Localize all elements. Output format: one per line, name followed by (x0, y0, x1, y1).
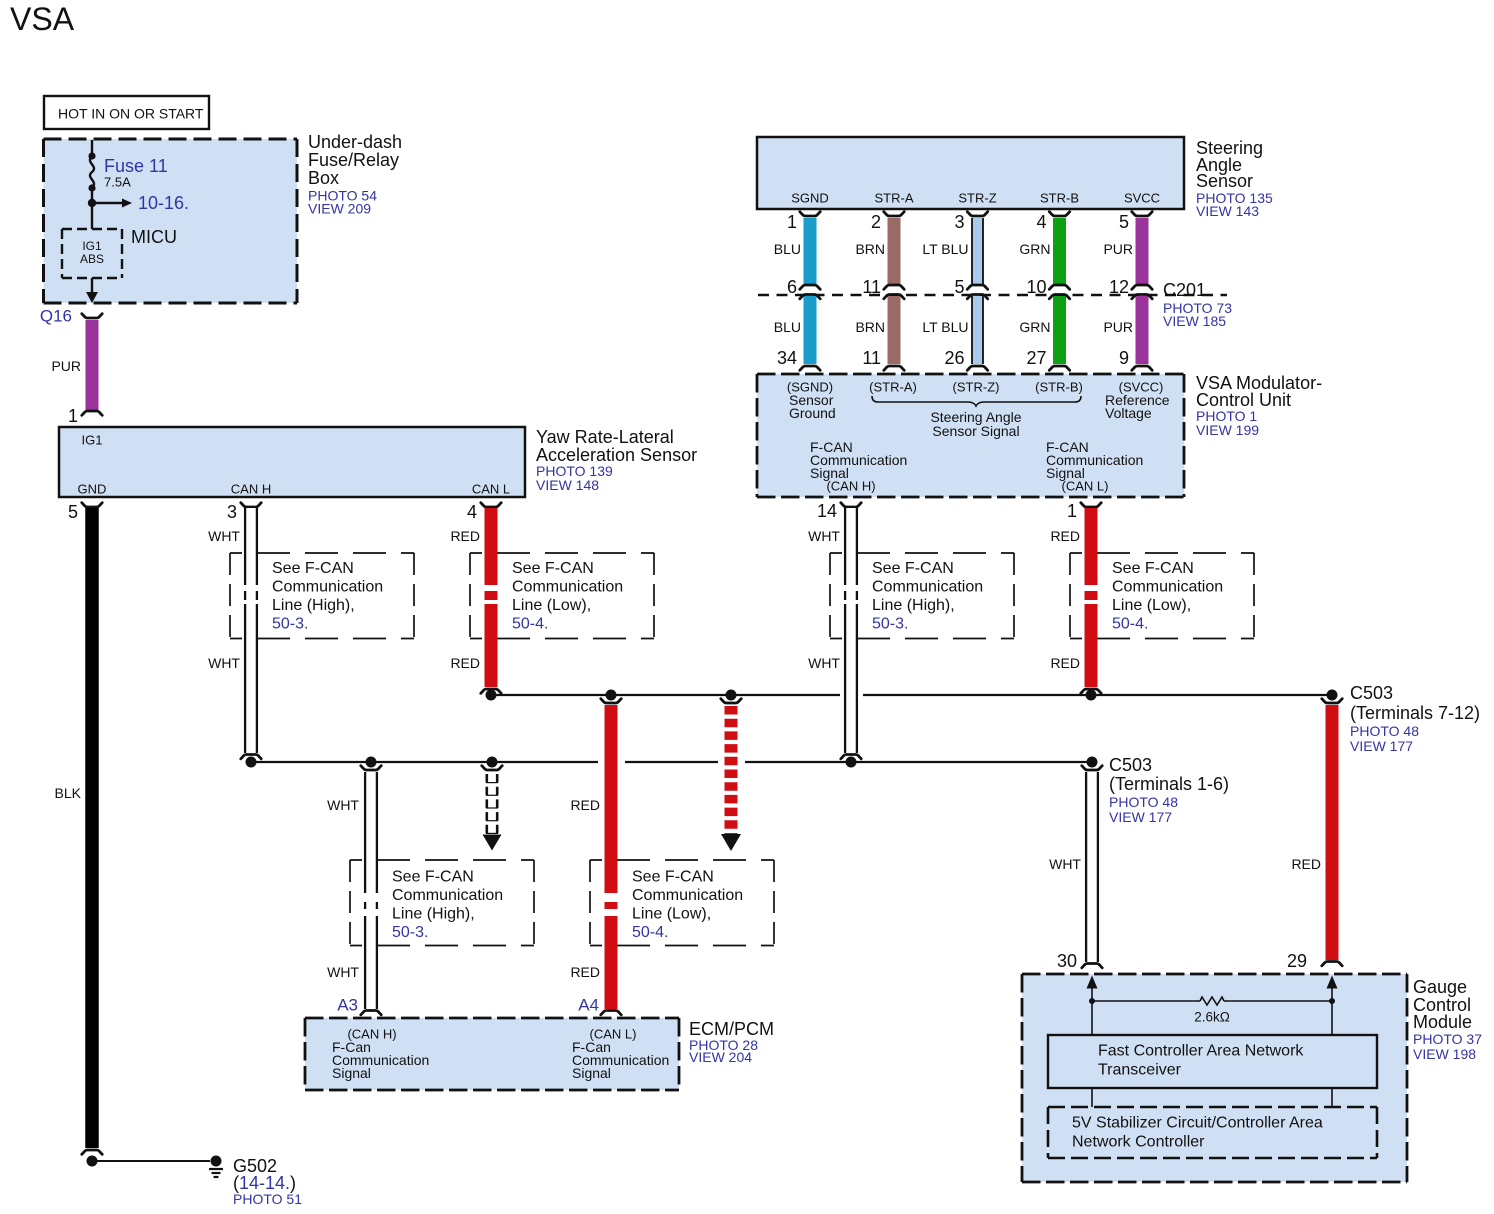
svg-text:VIEW 143: VIEW 143 (1196, 203, 1259, 219)
svg-text:CAN H: CAN H (231, 482, 271, 497)
svg-text:Communication: Communication (392, 887, 503, 904)
svg-text:VIEW 209: VIEW 209 (308, 201, 371, 217)
svg-text:11: 11 (862, 348, 881, 368)
svg-text:VSA: VSA (10, 1, 75, 37)
svg-text:WHT: WHT (808, 655, 840, 671)
svg-text:LT BLU: LT BLU (922, 241, 968, 257)
svg-text:Signal: Signal (572, 1065, 611, 1081)
svg-text:See F-CAN: See F-CAN (392, 869, 474, 886)
svg-text:See F-CAN: See F-CAN (872, 560, 954, 577)
svg-text:PUR: PUR (51, 358, 81, 374)
svg-text:VIEW 199: VIEW 199 (1196, 422, 1259, 438)
svg-text:Line (High),: Line (High), (872, 597, 955, 614)
svg-text:WHT: WHT (327, 964, 359, 980)
svg-text:BLK: BLK (55, 785, 82, 801)
svg-text:See F-CAN: See F-CAN (1112, 560, 1194, 577)
svg-text:PHOTO 48: PHOTO 48 (1109, 794, 1178, 810)
svg-text:BLU: BLU (774, 319, 801, 335)
svg-text:IG1: IG1 (82, 433, 103, 448)
svg-text:10: 10 (1026, 277, 1046, 297)
svg-text:2.6kΩ: 2.6kΩ (1194, 1010, 1230, 1025)
svg-text:RED: RED (1050, 528, 1080, 544)
svg-text:VIEW 177: VIEW 177 (1350, 738, 1413, 754)
svg-text:ECM/PCM: ECM/PCM (689, 1019, 774, 1039)
svg-text:C201: C201 (1163, 280, 1206, 300)
svg-text:2: 2 (871, 212, 881, 232)
svg-text:RED: RED (570, 964, 600, 980)
svg-text:WHT: WHT (808, 528, 840, 544)
svg-text:4: 4 (1036, 212, 1046, 232)
svg-text:PUR: PUR (1103, 319, 1133, 335)
svg-text:See F-CAN: See F-CAN (272, 560, 354, 577)
svg-text:PHOTO 51: PHOTO 51 (233, 1191, 302, 1207)
svg-text:Under-dash: Under-dash (308, 132, 402, 152)
svg-text:(CAN H): (CAN H) (826, 479, 875, 494)
svg-text:RED: RED (450, 655, 480, 671)
svg-text:A3: A3 (337, 996, 358, 1015)
svg-text:Transceiver: Transceiver (1098, 1062, 1182, 1079)
svg-text:VIEW 185: VIEW 185 (1163, 313, 1226, 329)
svg-text:Line (Low),: Line (Low), (512, 597, 591, 614)
svg-text:50-3.: 50-3. (872, 616, 908, 633)
svg-text:Ground: Ground (789, 405, 836, 421)
svg-text:Communication: Communication (1112, 579, 1223, 596)
svg-text:3: 3 (954, 212, 964, 232)
svg-text:Communication: Communication (632, 887, 743, 904)
svg-text:5V Stabilizer Circuit/Controll: 5V Stabilizer Circuit/Controller Area (1072, 1115, 1323, 1132)
svg-text:VIEW 198: VIEW 198 (1413, 1046, 1476, 1062)
svg-text:GND: GND (78, 482, 107, 497)
svg-text:ABS: ABS (80, 252, 104, 266)
svg-text:A4: A4 (578, 996, 599, 1015)
svg-text:4: 4 (467, 502, 477, 522)
svg-text:VIEW 177: VIEW 177 (1109, 809, 1172, 825)
svg-text:STR-B: STR-B (1040, 191, 1079, 206)
svg-text:26: 26 (944, 348, 964, 368)
svg-text:Fuse/Relay: Fuse/Relay (308, 150, 399, 170)
svg-text:GRN: GRN (1019, 319, 1050, 335)
svg-text:SGND: SGND (791, 191, 829, 206)
svg-text:(Terminals 1-6): (Terminals 1-6) (1109, 774, 1229, 794)
svg-text:Line (Low),: Line (Low), (1112, 597, 1191, 614)
svg-text:WHT: WHT (208, 655, 240, 671)
svg-text:IG1: IG1 (82, 239, 102, 253)
svg-text:50-4.: 50-4. (632, 924, 668, 941)
svg-text:Signal: Signal (332, 1065, 371, 1081)
svg-text:(CAN L): (CAN L) (1062, 479, 1109, 494)
svg-text:STR-Z: STR-Z (958, 191, 996, 206)
svg-text:SVCC: SVCC (1124, 191, 1160, 206)
svg-text:HOT IN ON OR START: HOT IN ON OR START (58, 106, 204, 122)
svg-text:Sensor: Sensor (1196, 171, 1253, 191)
svg-text:Fuse 11: Fuse 11 (104, 156, 168, 176)
svg-text:7.5A: 7.5A (104, 175, 131, 190)
svg-text:PUR: PUR (1103, 241, 1133, 257)
svg-text:50-3.: 50-3. (392, 924, 428, 941)
svg-text:RED: RED (1050, 655, 1080, 671)
svg-text:Gauge: Gauge (1413, 977, 1467, 997)
svg-text:(STR-B): (STR-B) (1035, 380, 1083, 395)
svg-text:29: 29 (1287, 951, 1307, 971)
svg-text:C503: C503 (1350, 683, 1393, 703)
svg-text:(Terminals 7-12): (Terminals 7-12) (1350, 703, 1480, 723)
svg-text:Box: Box (308, 168, 339, 188)
svg-text:WHT: WHT (208, 528, 240, 544)
svg-text:Fast Controller Area Network: Fast Controller Area Network (1098, 1043, 1304, 1060)
svg-text:WHT: WHT (327, 797, 359, 813)
svg-text:Voltage: Voltage (1105, 405, 1152, 421)
svg-text:Sensor Signal: Sensor Signal (932, 423, 1019, 439)
svg-text:Acceleration Sensor: Acceleration Sensor (536, 445, 697, 465)
svg-text:PHOTO 37: PHOTO 37 (1413, 1031, 1482, 1047)
svg-text:1: 1 (1067, 501, 1077, 521)
svg-text:11: 11 (862, 277, 881, 297)
svg-text:RED: RED (570, 797, 600, 813)
svg-text:Communication: Communication (512, 579, 623, 596)
svg-text:BLU: BLU (774, 241, 801, 257)
svg-text:See F-CAN: See F-CAN (512, 560, 594, 577)
svg-text:3: 3 (227, 502, 237, 522)
svg-text:Network Controller: Network Controller (1072, 1134, 1205, 1151)
svg-text:Communication: Communication (272, 579, 383, 596)
svg-text:9: 9 (1119, 348, 1129, 368)
svg-text:LT BLU: LT BLU (922, 319, 968, 335)
svg-text:14-14.: 14-14. (239, 1173, 290, 1193)
svg-text:RED: RED (1291, 856, 1321, 872)
svg-text:(STR-Z): (STR-Z) (953, 380, 1000, 395)
svg-text:BRN: BRN (855, 319, 885, 335)
svg-text:RED: RED (450, 528, 480, 544)
svg-text:CAN L: CAN L (472, 482, 510, 497)
svg-text:12: 12 (1109, 277, 1129, 297)
svg-text:Line (High),: Line (High), (392, 906, 475, 923)
svg-text:Control Unit: Control Unit (1196, 390, 1291, 410)
svg-text:5: 5 (68, 502, 78, 522)
svg-text:50-3.: 50-3. (272, 616, 308, 633)
svg-text:Communication: Communication (872, 579, 983, 596)
svg-text:Module: Module (1413, 1012, 1472, 1032)
svg-text:(STR-A): (STR-A) (869, 380, 917, 395)
svg-text:50-4.: 50-4. (512, 616, 548, 633)
svg-text:PHOTO 48: PHOTO 48 (1350, 723, 1419, 739)
svg-text:5: 5 (1119, 212, 1129, 232)
svg-text:27: 27 (1026, 348, 1046, 368)
svg-text:Q16: Q16 (40, 307, 72, 326)
svg-text:STR-A: STR-A (875, 191, 914, 206)
svg-text:34: 34 (777, 348, 797, 368)
svg-text:10-16.: 10-16. (138, 193, 189, 213)
svg-text:6: 6 (787, 277, 797, 297)
svg-text:See F-CAN: See F-CAN (632, 869, 714, 886)
svg-text:C503: C503 (1109, 755, 1152, 775)
svg-text:Line (Low),: Line (Low), (632, 906, 711, 923)
svg-text:VIEW 148: VIEW 148 (536, 477, 599, 493)
svg-text:1: 1 (68, 406, 78, 426)
svg-text:VIEW 204: VIEW 204 (689, 1049, 752, 1065)
svg-text:1: 1 (787, 212, 797, 232)
svg-text:GRN: GRN (1019, 241, 1050, 257)
svg-text:14: 14 (817, 501, 837, 521)
svg-text:30: 30 (1057, 951, 1077, 971)
svg-text:MICU: MICU (131, 227, 177, 247)
svg-text:50-4.: 50-4. (1112, 616, 1148, 633)
svg-text:Line (High),: Line (High), (272, 597, 355, 614)
svg-text:): ) (290, 1173, 296, 1193)
svg-text:Yaw Rate-Lateral: Yaw Rate-Lateral (536, 427, 674, 447)
svg-text:WHT: WHT (1049, 856, 1081, 872)
svg-text:BRN: BRN (855, 241, 885, 257)
svg-text:5: 5 (954, 277, 964, 297)
